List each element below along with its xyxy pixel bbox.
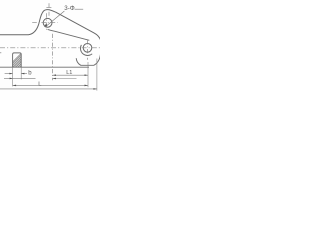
L1 right arrow [85, 74, 89, 76]
lever plan view: left edge outline [0, 10, 101, 41]
L1 left arrow [53, 74, 57, 76]
apex tick [46, 7, 51, 9]
leader arrowhead [44, 24, 47, 27]
L mid arrow [53, 78, 57, 80]
L dimension line [13, 84, 88, 86]
extension line b-left [12, 67, 14, 86]
b dimension line left w arrow [5, 73, 13, 75]
L left arrow [10, 78, 13, 80]
b dimension line right w arrow [21, 73, 27, 75]
extension line b-right [20, 67, 22, 79]
vertical dash-dot line at x=52.5 [52, 34, 54, 80]
hole-center extension line [87, 62, 89, 87]
L dim right arrow [85, 85, 89, 87]
hole H1 (boss hole) [43, 18, 52, 27]
svg-text:L: L [38, 82, 42, 88]
right-edge extension line [96, 59, 98, 91]
bottom right arrow [93, 88, 97, 90]
outer plate right/bottom boundary [76, 53, 100, 65]
inner end-lobe arc [80, 45, 92, 56]
apex centerline V [48, 3, 50, 16]
L dim left arrow [13, 85, 17, 87]
long horizontal centerline [0, 47, 100, 49]
long line under section [0, 66, 89, 68]
lower arm edge D2 [48, 29, 90, 40]
L dimension line right segment [53, 78, 77, 80]
left edge stray dash [0, 52, 1, 54]
bottom dimension line [0, 88, 97, 90]
hole H2 (right end hole) [83, 44, 92, 53]
section hatch box [6, 52, 38, 69]
svg-text:b: b [28, 71, 32, 77]
L1 dimension line [53, 74, 89, 76]
L dimension line left segment [4, 77, 36, 79]
svg-text:3-Φ: 3-Φ [64, 5, 75, 12]
label shelf line [75, 8, 84, 10]
svg-text:L1: L1 [66, 70, 72, 76]
centerline V of hole H2 [87, 40, 89, 60]
centerline H of hole H1 [32, 21, 57, 23]
centerline V of hole H1 [46, 13, 48, 31]
leader line for 3-PHI [45, 11, 64, 27]
